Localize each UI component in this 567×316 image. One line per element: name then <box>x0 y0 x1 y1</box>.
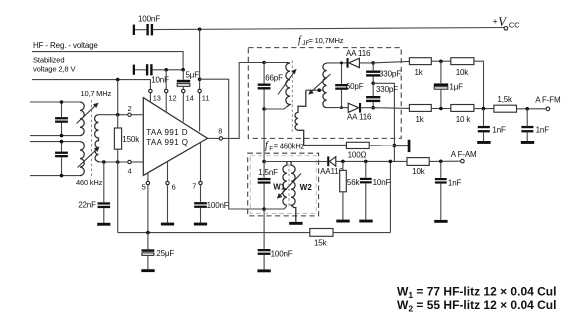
wire pin 6 to ground <box>167 185 169 223</box>
pin 11 <box>198 89 210 131</box>
node AM tank bottom <box>262 207 266 211</box>
svg-text:5μF: 5μF <box>186 71 200 80</box>
wire discriminator row 2 <box>327 107 348 109</box>
svg-text:25μF: 25μF <box>156 249 174 258</box>
svg-text:460 kHz: 460 kHz <box>76 178 103 187</box>
svg-text:11: 11 <box>202 94 210 103</box>
wire input tank 2 bottom <box>30 175 80 177</box>
svg-text:15k: 15k <box>314 239 328 248</box>
variable core arrow FM secondary <box>309 74 330 94</box>
svg-text:10,7 MHz: 10,7 MHz <box>81 89 112 98</box>
AM detector dashed box (inner, light) <box>250 156 316 214</box>
wire feedback bus <box>118 232 310 234</box>
capacitor 22nF <box>78 162 110 223</box>
ground (pin 7 cap) <box>194 223 207 226</box>
svg-text:voltage 2,8 V: voltage 2,8 V <box>33 65 76 74</box>
wire pin 8 output to FM tank <box>223 63 265 139</box>
capacitor 100nF (AM cold node bypass) <box>258 209 293 269</box>
wire input tank 1 top <box>30 101 80 103</box>
svg-text:+: + <box>493 16 498 26</box>
pin 13 <box>149 89 161 102</box>
svg-text:F: F <box>269 146 273 153</box>
svg-text:1k: 1k <box>415 68 424 77</box>
svg-text:TAA 991 Q: TAA 991 Q <box>146 138 188 147</box>
pin 7 <box>192 143 202 191</box>
capacitor 100nF (pin 7) <box>194 185 229 223</box>
svg-text:10nF: 10nF <box>373 178 391 187</box>
svg-text:2: 2 <box>128 104 132 113</box>
node 66pF bottom <box>262 107 266 111</box>
terminal AF-FM <box>535 96 561 111</box>
capacitor 66pF <box>258 63 283 110</box>
wire HF-Reg voltage line <box>32 41 183 70</box>
svg-text:60pF: 60pF <box>346 82 364 91</box>
capacitor C-tank1 (10.7MHz) <box>55 102 68 136</box>
capacitor 1nF (first) <box>478 109 506 141</box>
ground (100nF bypass) <box>257 269 270 272</box>
svg-text:= 10,7MHz: = 10,7MHz <box>309 36 344 45</box>
resistor 150k <box>114 80 140 233</box>
wire FM tank top <box>264 62 286 64</box>
resistor 10k (row1) <box>451 58 484 109</box>
svg-text:7: 7 <box>192 182 196 191</box>
node pin5 / 25uF on bus <box>146 231 150 235</box>
inductor T1 primary 10.7MHz <box>80 102 84 136</box>
ground (1nF first) <box>477 141 490 144</box>
wire pin 12 drop <box>165 70 167 89</box>
svg-text:330pF: 330pF <box>379 69 401 78</box>
diode AA116 (bottom, D2) <box>347 103 373 121</box>
svg-text:1nF: 1nF <box>448 179 462 188</box>
svg-text:5: 5 <box>142 182 146 191</box>
ground (22nF) <box>97 223 110 226</box>
wire AM tank bottom <box>264 206 287 209</box>
ground (1nF second) <box>521 141 534 144</box>
ground (56k) <box>336 220 349 223</box>
svg-text:100nF: 100nF <box>138 15 160 24</box>
ground (W2) <box>289 222 302 225</box>
node 330pF-1 top <box>371 61 375 65</box>
svg-text:1nF: 1nF <box>492 125 506 134</box>
pin 2 <box>128 104 144 116</box>
svg-text:66pF: 66pF <box>265 73 283 82</box>
ground (pin 6) <box>161 223 174 226</box>
svg-text:W2: W2 <box>300 183 313 192</box>
diode AA116 (AM, D3) <box>320 156 407 176</box>
svg-text:W1: W1 <box>273 183 286 192</box>
wire FM tank bottom <box>264 107 286 109</box>
capacitor 60pF <box>335 63 363 108</box>
node 60pF bottom <box>340 106 343 109</box>
node AM tank top <box>262 160 266 164</box>
pin 4 <box>128 160 144 175</box>
node tank1 bottom <box>60 134 64 138</box>
svg-text:TAA 991 D: TAA 991 D <box>146 128 188 137</box>
svg-text:= 460kHz: = 460kHz <box>274 142 305 151</box>
wire ground node drop to AM line <box>393 146 395 162</box>
inductor FM tertiary <box>295 90 306 145</box>
svg-text:6: 6 <box>172 182 176 191</box>
capacitor 100nF (top decoupling) <box>133 15 160 36</box>
wire input tank 2 top <box>30 141 80 143</box>
variable core arrow T2 <box>78 147 99 167</box>
capacitor 10nF (reg bypass) <box>133 64 183 84</box>
wire input tank 1 bottom <box>30 135 80 137</box>
inductor W1 <box>283 162 287 206</box>
node pin4 / riser <box>116 160 120 164</box>
resistor 10k (AM) <box>407 158 461 177</box>
svg-text:4: 4 <box>128 167 132 176</box>
capacitor 1.5nF <box>258 162 278 210</box>
pin 6 <box>166 162 176 192</box>
node tank2 top <box>60 140 64 144</box>
svg-text:1,5k: 1,5k <box>497 95 513 104</box>
node centre tap <box>317 88 321 92</box>
capacitor 25uF (electrolytic) <box>142 233 175 270</box>
svg-text:Stabilized: Stabilized <box>33 56 64 65</box>
svg-text:22nF: 22nF <box>78 201 96 210</box>
core line W1/W2 <box>288 164 290 207</box>
svg-text:14: 14 <box>186 94 194 103</box>
variable core arrow FM primary <box>278 70 296 95</box>
node 10nF tap <box>364 160 368 164</box>
node 330pF-2 bottom <box>371 106 375 110</box>
capacitor C-tank2 (460kHz) <box>55 142 68 176</box>
resistor 15k (in bus) <box>310 229 391 248</box>
wire pin 11 riser from Vcc rail <box>199 29 201 89</box>
inductor FM primary <box>286 63 290 107</box>
diode AA116 (top, D1) <box>346 49 373 67</box>
resistor 1.5k <box>494 95 546 112</box>
inductor T2 primary 460kHz <box>80 142 84 176</box>
node 330pF midpoint <box>371 82 375 86</box>
node 1uF top <box>439 60 443 64</box>
svg-text:10 k: 10 k <box>456 115 472 124</box>
variable core arrow T1 <box>77 103 98 123</box>
svg-text:A F-FM: A F-FM <box>535 96 561 105</box>
ground (discriminator, sideways) <box>394 140 410 152</box>
inductor T1 secondary <box>95 115 99 163</box>
wire secondary centre tap <box>306 89 323 91</box>
svg-text:13: 13 <box>153 94 161 103</box>
node tank2 bottom <box>60 174 64 178</box>
svg-text:1,5nF: 1,5nF <box>258 168 278 177</box>
svg-text:1μF: 1μF <box>449 82 463 91</box>
svg-text:150k: 150k <box>122 135 140 144</box>
svg-text:AA 116: AA 116 <box>346 49 371 58</box>
ground (10nF AM) <box>359 220 372 223</box>
pin 5 <box>142 173 150 191</box>
capacitor 10nF (AM) <box>360 161 391 219</box>
wire pin 2 line <box>99 114 128 116</box>
node 1uF bottom <box>439 107 443 111</box>
node AM line to bus riser <box>389 160 393 164</box>
wire AM tank top / line to diode <box>264 161 327 163</box>
node 5uF top junction <box>181 68 185 72</box>
FM discriminator dashed box fJF=10.7MHz <box>248 35 401 138</box>
node 1nF-1 / 10k junction <box>482 107 486 111</box>
resistor 56k <box>340 161 361 219</box>
svg-text:1k: 1k <box>416 115 425 124</box>
wire bus riser to AM output line <box>389 162 391 233</box>
capacitor 1nF (second) <box>521 109 549 141</box>
resistor 1k (row2) <box>409 105 450 125</box>
core line FM primary/tertiary <box>291 61 293 134</box>
svg-text:AA 116: AA 116 <box>347 112 372 121</box>
AM detector dashed box fF=460kHz (outer) <box>248 153 319 216</box>
inductor W2 <box>291 162 296 222</box>
svg-text:56k: 56k <box>347 178 361 187</box>
wire discriminator row 1 <box>327 62 347 64</box>
wire pin 5 to feedback bus <box>147 185 149 233</box>
ground (25uF) <box>141 269 154 272</box>
capacitor 330pF (upper) <box>366 63 401 83</box>
inductor FM secondary <box>323 63 327 107</box>
svg-text:A F-AM: A F-AM <box>451 150 477 159</box>
node 60pF top <box>340 61 343 64</box>
capacitor 1nF (AM) <box>435 161 462 220</box>
svg-text:1nF: 1nF <box>536 125 550 134</box>
svg-text:100nF: 100nF <box>271 249 293 258</box>
node secondary bottom / 22nF <box>102 160 106 164</box>
capacitor 1uF (electrolytic) <box>434 61 463 108</box>
label fF = 460kHz <box>265 141 305 153</box>
svg-text:330pF: 330pF <box>376 85 398 94</box>
node Vcc junction (pin 11 riser) <box>198 28 202 32</box>
svg-text:W2 = 55 HF-litz 12 × 0.04 Cul: W2 = 55 HF-litz 12 × 0.04 Cul <box>397 298 556 314</box>
variable core arrow W1/W2 <box>278 174 301 198</box>
svg-text:100nF: 100nF <box>207 201 229 210</box>
node discriminator ground point <box>393 144 397 148</box>
node pin2 / 150k <box>116 113 120 117</box>
svg-text:V: V <box>498 15 507 29</box>
wire tertiary to 100 Ohm <box>304 144 347 146</box>
pin 14 <box>182 89 194 121</box>
ground (1nF AM) <box>434 220 447 223</box>
note W1 winding spec <box>397 285 556 314</box>
terminal AF-AM <box>451 150 477 163</box>
node 56k tap <box>341 160 345 164</box>
resistor 1k (row1) <box>409 58 450 77</box>
terminal +Vcc <box>493 15 521 30</box>
capacitor 5uF (electrolytic) <box>177 70 199 90</box>
svg-text:8: 8 <box>218 126 222 135</box>
node tank1 top <box>60 100 64 104</box>
wire FM tank bottom down to AM tank <box>263 109 265 162</box>
wire row1 to 1k <box>373 61 409 63</box>
node 1nF-2 junction <box>525 107 529 111</box>
wire 330pF midpoint to ground node <box>373 83 394 145</box>
node stabilized line to 150k riser <box>116 78 120 82</box>
node 10nF / pin12 junction <box>164 68 168 72</box>
resistor 100 Ohm <box>346 142 394 159</box>
capacitor 330pF (lower) <box>366 83 398 107</box>
wire pin11 to AM transformer cold end <box>200 79 265 209</box>
pin 8 (output) <box>208 126 223 140</box>
svg-text:10k: 10k <box>412 167 426 176</box>
wire pin 4 line <box>99 161 128 163</box>
wire row2 to 1k <box>373 107 409 110</box>
svg-text:100Ω: 100Ω <box>348 151 367 160</box>
svg-text:10k: 10k <box>456 68 470 77</box>
pin 12 <box>165 89 177 111</box>
core line input transformers <box>91 100 93 177</box>
svg-text:HF - Reg. - voltage: HF - Reg. - voltage <box>33 41 98 50</box>
svg-text:12: 12 <box>168 94 176 103</box>
node 66pF top <box>262 61 266 65</box>
node 1nF AM tap <box>439 160 443 164</box>
resistor 10k (row2) <box>451 105 494 125</box>
op-amp U1 TAA991 triangle <box>143 98 207 176</box>
node pin11 branch <box>198 77 202 81</box>
wire Vcc rail <box>135 28 504 30</box>
wire Stabilized 2.8V line <box>32 56 150 89</box>
svg-text:CC: CC <box>509 20 520 29</box>
